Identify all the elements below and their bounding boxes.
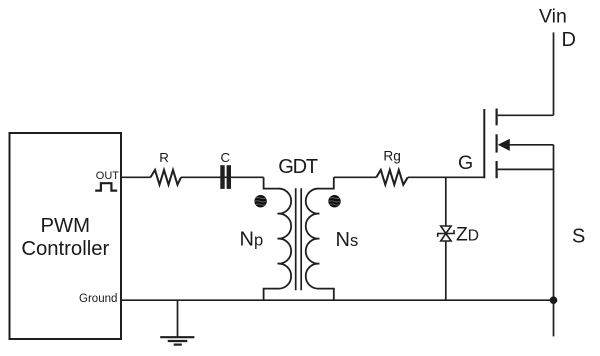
resistor R bbox=[151, 170, 182, 185]
wire drain to Vin bbox=[553, 32, 555, 115]
svg-text:Vin: Vin bbox=[539, 6, 567, 28]
MOSFET body arrow bbox=[498, 139, 510, 151]
svg-text:Controller: Controller bbox=[21, 238, 109, 260]
svg-text:Ground: Ground bbox=[79, 293, 117, 305]
MOSFET drain lead bbox=[498, 114, 554, 116]
junction dot source/ground bbox=[550, 296, 558, 304]
primary winding Np bbox=[264, 177, 292, 300]
capacitor C bbox=[220, 165, 224, 189]
MOSFET body lead bbox=[509, 144, 554, 146]
secondary winding Ns bbox=[306, 177, 334, 300]
resistor Rg bbox=[376, 170, 408, 185]
svg-text:PWM: PWM bbox=[41, 215, 91, 237]
wire zener to ground net bbox=[445, 241, 447, 300]
MOSFET source lead bbox=[498, 168, 554, 170]
wire gate node to zener bbox=[445, 177, 447, 226]
wire OUT to R bbox=[121, 176, 151, 178]
ground stub wire bbox=[177, 300, 179, 337]
wire secondary to Rg bbox=[334, 176, 377, 178]
svg-text:Rg: Rg bbox=[383, 148, 401, 163]
bottom ground net wire bbox=[121, 299, 554, 301]
svg-text:G: G bbox=[458, 152, 473, 174]
svg-text:Np: Np bbox=[240, 228, 264, 250]
svg-text:R: R bbox=[159, 150, 169, 165]
svg-text:C: C bbox=[220, 150, 230, 165]
MOSFET Q1 channel segments bbox=[496, 109, 498, 126]
svg-text:GDT: GDT bbox=[278, 156, 318, 178]
svg-text:ZD: ZD bbox=[456, 224, 479, 245]
ground symbol bbox=[160, 336, 194, 338]
source rail wire bbox=[553, 145, 555, 337]
svg-text:D: D bbox=[562, 29, 576, 51]
pulse waveform icon bbox=[95, 183, 117, 190]
zener diode ZD (bidirectional) bbox=[441, 226, 451, 234]
PWM controller box U1 bbox=[10, 133, 122, 339]
phase dot primary bbox=[254, 195, 266, 207]
wire C to transformer primary bbox=[232, 176, 264, 178]
svg-text:OUT: OUT bbox=[96, 170, 120, 182]
svg-text:S: S bbox=[572, 226, 585, 248]
wire R to C bbox=[181, 176, 232, 178]
transformer core bbox=[295, 188, 297, 290]
wire Rg to gate bbox=[408, 176, 485, 178]
phase dot secondary bbox=[328, 195, 340, 207]
MOSFET Q1 gate bar bbox=[483, 109, 485, 178]
svg-text:Ns: Ns bbox=[336, 229, 359, 251]
